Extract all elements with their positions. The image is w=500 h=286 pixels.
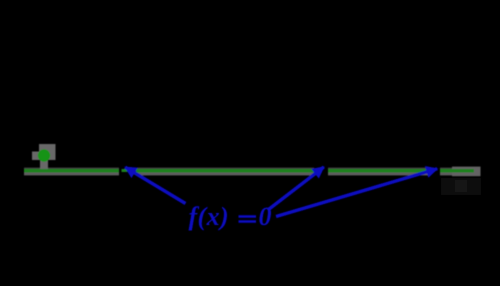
green line segment 3: [328, 169, 429, 173]
x-axis gray halo segment 2: [136, 168, 314, 176]
curve halo square left: [32, 152, 40, 161]
faint x label halo at right: [441, 178, 481, 195]
x-axis arrowhead halo at right end: [440, 167, 481, 177]
x-axis gray halo segment 3: [328, 168, 429, 176]
svg-text:0: 0: [259, 202, 272, 231]
curve halo stub down to axis: [40, 160, 48, 173]
green dash in gap 1: [122, 169, 128, 172]
green point: [38, 149, 50, 161]
curve halo square upper: [39, 144, 56, 160]
green line segment 4: [440, 169, 474, 173]
arrow to right zero: [276, 169, 437, 217]
x-axis gray halo segment 1: [24, 168, 119, 176]
green line segment 2: [136, 169, 315, 173]
green line segment 1: [24, 169, 119, 173]
svg-text:f(x): f(x): [189, 202, 230, 231]
arrow to middle zero: [269, 167, 324, 210]
equals sign: [239, 215, 257, 223]
arrow to left zero: [125, 167, 185, 203]
